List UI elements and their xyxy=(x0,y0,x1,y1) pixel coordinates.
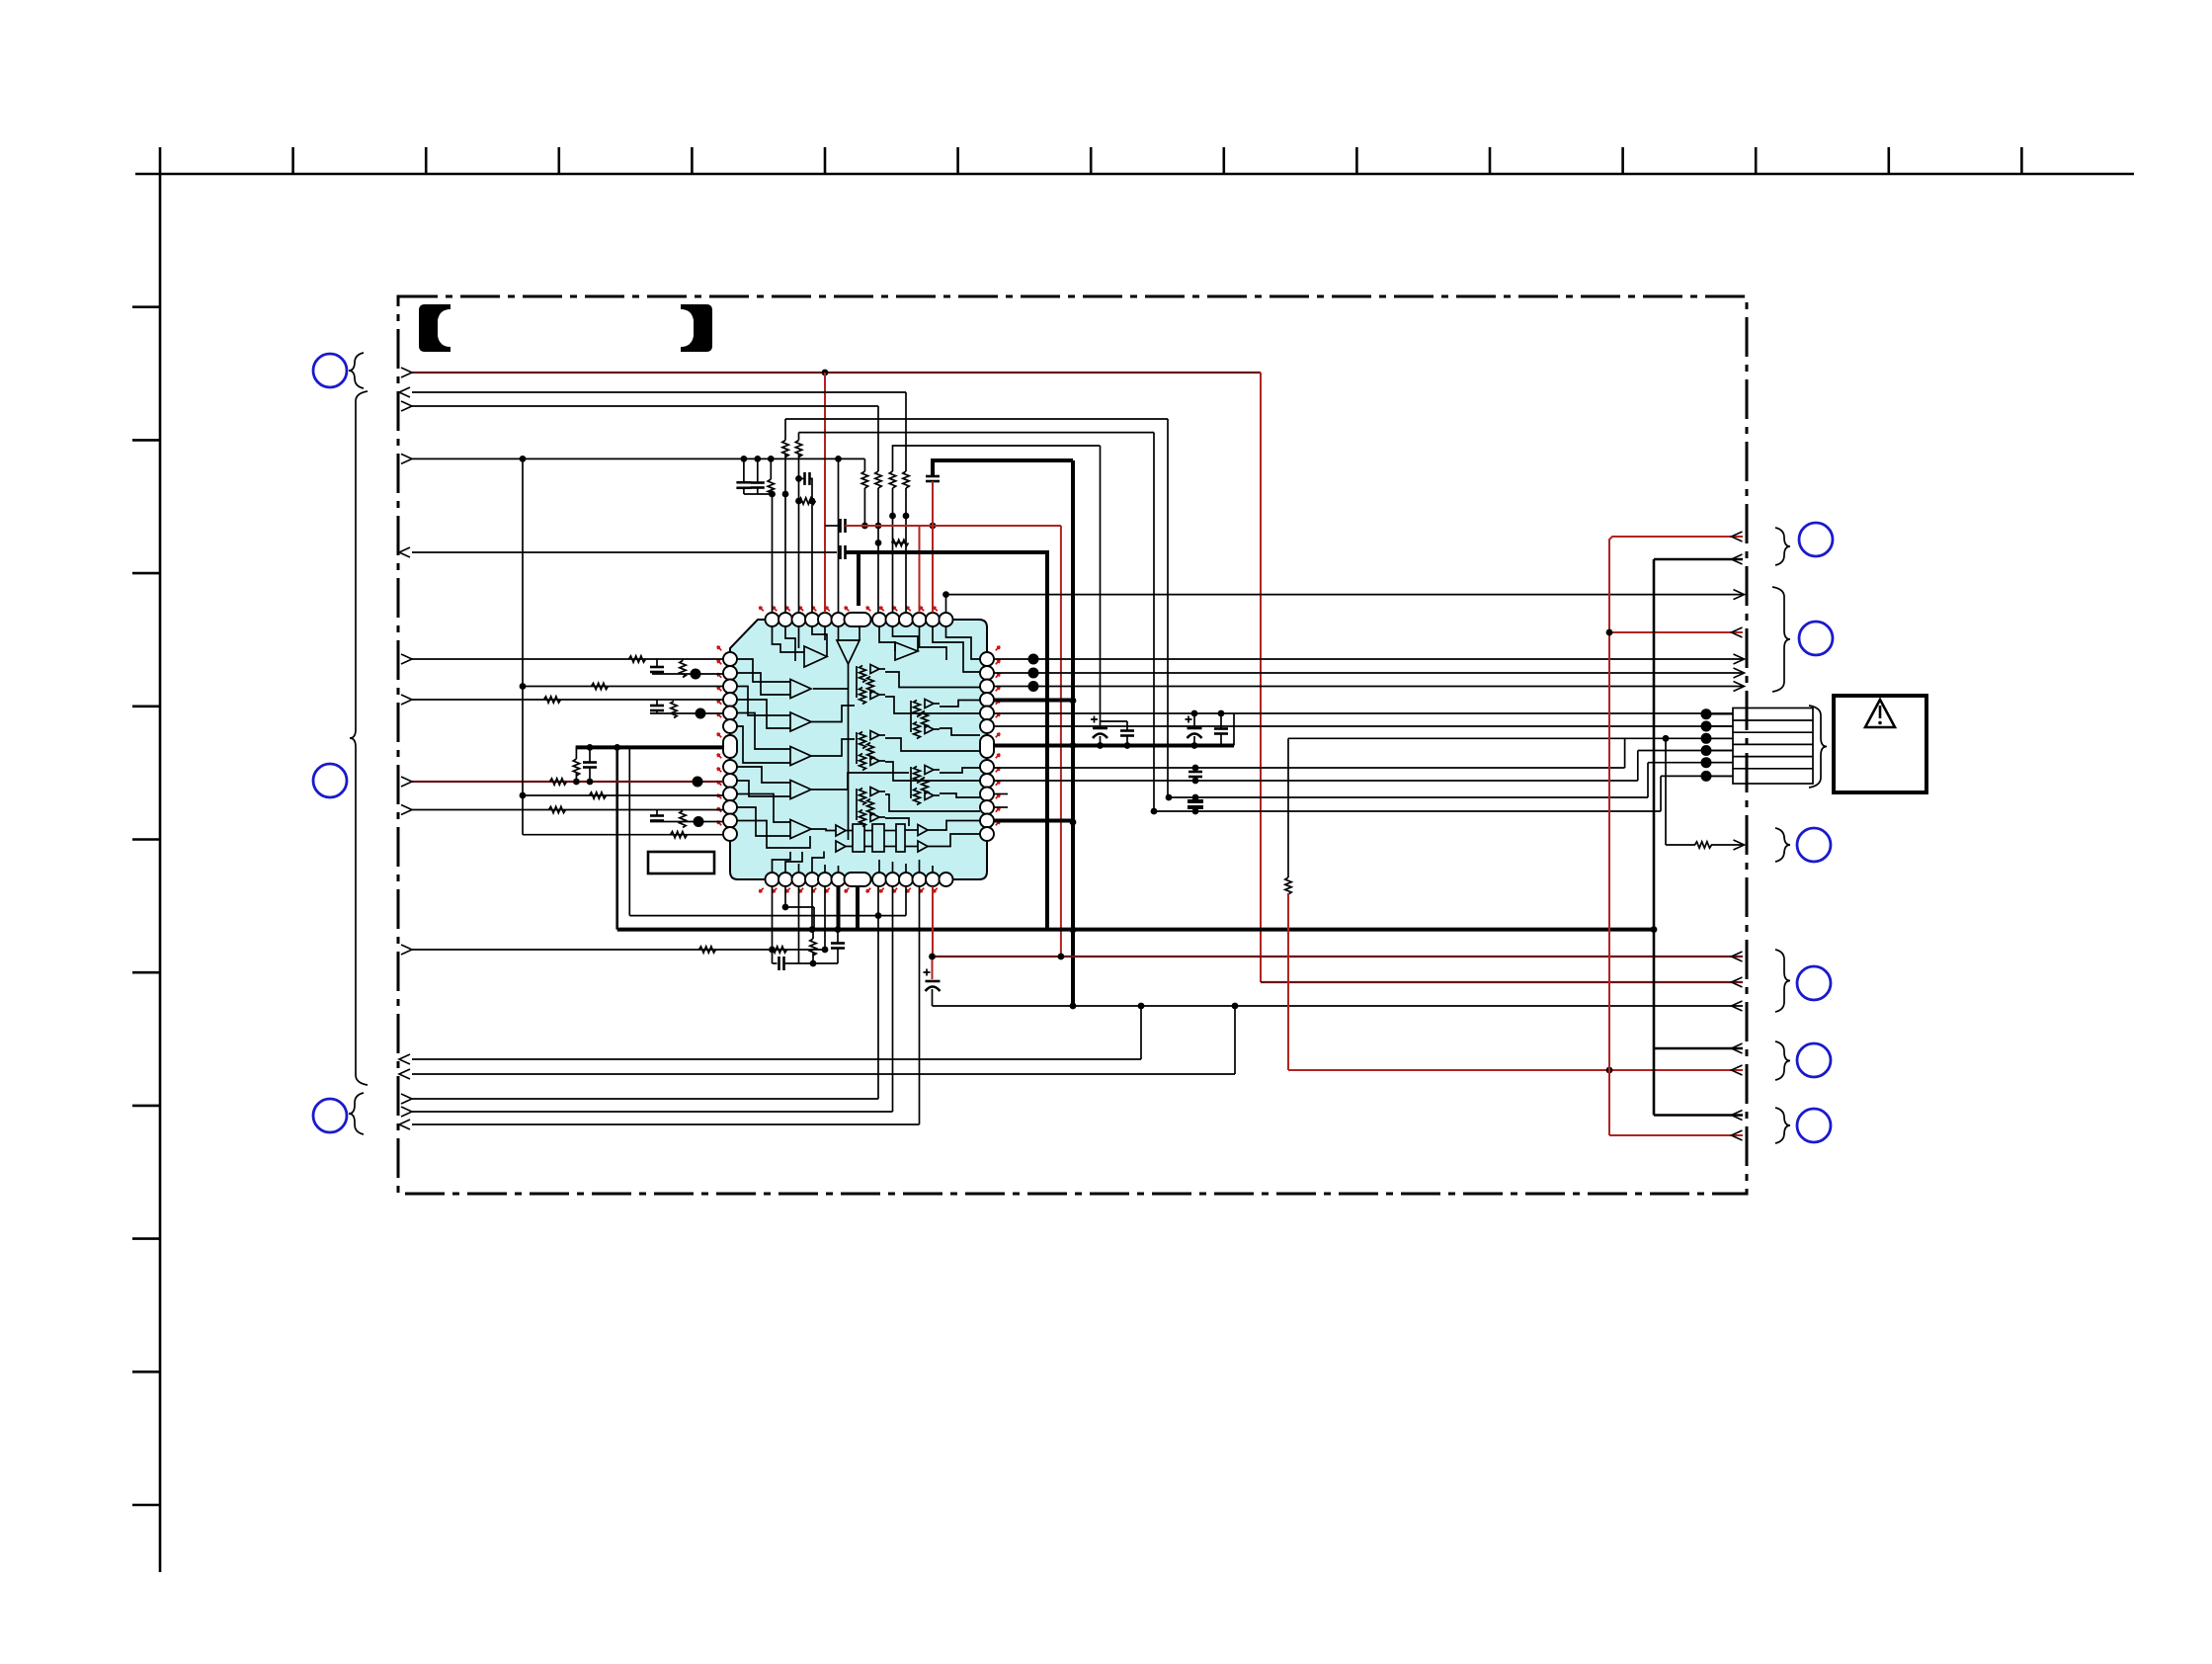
R7b leads xyxy=(770,458,772,479)
wire red to CN-R6 xyxy=(1609,1134,1743,1136)
wire R3 out xyxy=(994,686,1743,688)
wire red to pin T5 xyxy=(824,373,826,613)
resistor R7 xyxy=(799,498,816,504)
resistor R20 xyxy=(699,947,716,953)
wire red CN-R2 line xyxy=(1609,631,1743,633)
wire L12 input xyxy=(650,821,723,823)
wire B3 drop xyxy=(798,886,800,963)
wire R9 riser xyxy=(1637,751,1639,782)
wire in2 xyxy=(412,391,906,393)
capacitor C9 xyxy=(583,761,597,764)
wire in3 xyxy=(412,405,878,407)
resistor R23 xyxy=(1695,842,1712,848)
capacitor C4 xyxy=(839,519,842,533)
wire pin T9 lower xyxy=(905,488,907,613)
wire R1 out xyxy=(994,658,1743,660)
R22 leads xyxy=(812,930,814,939)
wire cap rail thick xyxy=(1073,744,1234,748)
wire B9 drop xyxy=(905,886,907,916)
wire blk branch2 xyxy=(1654,1114,1743,1117)
wire thick gnd rail xyxy=(617,928,1654,932)
capacitor C10 xyxy=(650,814,664,817)
resistor R17 xyxy=(549,806,566,812)
wire blk branch1 xyxy=(1654,1047,1743,1050)
capacitor C3 xyxy=(803,472,806,485)
wire T6 vertical xyxy=(838,458,840,613)
capacitor C17 xyxy=(1214,727,1228,730)
IC internal gain network G5 xyxy=(860,789,866,805)
IC bottom pin row xyxy=(766,873,779,886)
wire L11 input xyxy=(412,809,723,811)
wire red vert x1074 xyxy=(1060,526,1062,957)
wire net821 xyxy=(1154,810,1661,812)
capacitor C19 xyxy=(1188,800,1202,803)
wire bias line C xyxy=(785,418,1168,420)
wire J1 feed3 xyxy=(1288,737,1733,739)
wire net807 xyxy=(1169,796,1648,798)
connector CN-L1 (blue circle) xyxy=(313,354,347,387)
IC U1 body xyxy=(730,620,987,879)
wire out lines bottom-left xyxy=(412,1098,878,1100)
board outline (dash-dot border) xyxy=(398,296,1747,1194)
page frame top ruler xyxy=(135,173,2134,176)
resistor R7b xyxy=(768,479,774,496)
page frame left ruler xyxy=(159,147,162,1572)
right title bracket xyxy=(681,304,712,352)
wire B8 long drop xyxy=(877,886,879,1099)
resistor R8 xyxy=(861,471,867,488)
wire red vertical right xyxy=(1260,373,1262,982)
wire R4 link xyxy=(893,541,907,543)
C7 leads xyxy=(656,659,658,667)
wire T1 vertical xyxy=(772,494,774,613)
wire R7 thick xyxy=(994,744,1073,748)
R7 leads xyxy=(798,500,800,502)
C16 leads xyxy=(1193,713,1195,726)
IC internal center bus wire xyxy=(848,664,850,840)
IC right pin column xyxy=(980,652,994,666)
IC internal filter chain xyxy=(836,825,846,836)
wire L4 input xyxy=(412,699,723,701)
wire line D drop xyxy=(1153,433,1155,811)
wire filter feed xyxy=(412,458,864,459)
capacitor C13 electrolytic xyxy=(926,980,941,983)
capacitor C8 xyxy=(650,705,664,707)
IC internal buffer A7 xyxy=(790,781,811,799)
wire B10 long drop xyxy=(892,886,894,1112)
IC internal gain network G2 xyxy=(914,701,921,717)
wire blk vertical xyxy=(1653,559,1656,1116)
connector CN-R2 (blue circle) xyxy=(1799,622,1833,655)
brace for CN-R2 xyxy=(1772,587,1790,692)
wire R9 out xyxy=(994,780,1638,782)
C2 leads xyxy=(757,458,759,482)
wire bl3 xyxy=(412,1123,920,1125)
wire red to CN-R5b xyxy=(1288,1069,1743,1071)
wire ret1 riser xyxy=(1140,1006,1142,1059)
resistor R6 xyxy=(795,441,801,458)
wire B1 drop xyxy=(772,886,774,963)
capacitor C15 xyxy=(1120,729,1134,732)
capacitor C6 xyxy=(839,545,842,559)
IC internal inverter A2 (down) xyxy=(837,640,860,664)
connector CN-R3 (blue circle) xyxy=(1797,828,1831,862)
wire bl2 xyxy=(412,1111,893,1113)
capacitor C2 xyxy=(751,481,765,484)
resistor R15 xyxy=(550,779,567,785)
resistor R24 xyxy=(1285,877,1291,894)
wire dark-red to CN-R4 xyxy=(1261,981,1743,983)
wire red pin T11 xyxy=(919,526,921,613)
tall brace left group xyxy=(350,391,368,1085)
capacitor C16 electrolytic xyxy=(1188,727,1202,730)
brace for CN-L1 xyxy=(349,353,364,388)
C8 leads xyxy=(656,700,658,706)
C19 plates thick xyxy=(1188,799,1203,803)
wire net821 riser xyxy=(1660,776,1662,811)
resistor R19 xyxy=(671,832,688,838)
capacitor C5 xyxy=(926,475,940,478)
wire R4 thick gnd xyxy=(994,699,1073,703)
wire red mid xyxy=(846,525,1061,527)
wire gnd drop medium xyxy=(615,747,618,929)
C15 leads xyxy=(1126,721,1128,731)
IC internal buffer A4 xyxy=(790,680,811,699)
wire red pwr rail xyxy=(933,956,1744,957)
wire pin T10 lower xyxy=(892,488,894,613)
C5 red lead xyxy=(932,481,934,613)
resistor R10 xyxy=(680,661,686,678)
wire R5 leads xyxy=(784,419,786,441)
wire L5 input xyxy=(650,712,723,714)
wire B5 drop xyxy=(824,886,826,950)
R8 leads xyxy=(863,458,865,471)
resistor R9 xyxy=(629,656,646,662)
brace for CN-R3 xyxy=(1775,828,1790,862)
capacitor C18 xyxy=(1188,771,1202,774)
wire thick gnd right xyxy=(846,552,1048,930)
IC left pin column xyxy=(723,652,737,666)
resistor R11 xyxy=(592,683,609,689)
C4 left lead xyxy=(825,525,841,527)
resistor R13 xyxy=(671,702,677,718)
wire cap join xyxy=(744,493,773,495)
wire pin T10 upper xyxy=(893,446,1101,471)
resistor R12 xyxy=(544,697,561,703)
wire R6 to J1 xyxy=(994,725,1733,727)
connector CN-R5 (blue circle) xyxy=(1797,1043,1831,1077)
C11 leads xyxy=(773,962,778,964)
capacitor C12 xyxy=(831,942,845,945)
resistor R4 coupling xyxy=(892,540,909,545)
resistor R21 xyxy=(771,947,787,953)
resistor R5 xyxy=(782,441,788,458)
wire B7 thick drop xyxy=(856,886,860,930)
resistor R22 xyxy=(810,939,816,956)
wire R6 leads xyxy=(798,433,800,441)
IC internal buffer A1 xyxy=(804,646,827,667)
wire sense rail xyxy=(629,915,906,917)
wire L9 red input xyxy=(412,781,723,783)
multi-pin connector block J1 xyxy=(1733,708,1813,785)
wire SE out xyxy=(946,594,1744,596)
wire pin T8 vertical upper xyxy=(877,406,879,471)
IC top pin row xyxy=(766,613,779,626)
wire R8 riser xyxy=(1624,738,1626,768)
wire pin T9 vertical xyxy=(905,392,907,471)
C13 leads xyxy=(932,957,934,979)
resistor R2 xyxy=(903,471,909,488)
IC internal buffer A3 xyxy=(895,642,918,660)
wire agnd rail xyxy=(933,1005,1744,1007)
C18 leads xyxy=(1194,768,1196,772)
resistor R18 xyxy=(680,811,686,828)
wire ret2 riser xyxy=(1234,1006,1236,1074)
C1 leads xyxy=(743,458,745,482)
wire blk CN-R1 line xyxy=(1654,558,1743,561)
capacitor C1 xyxy=(736,481,751,484)
C14 leads xyxy=(1100,446,1102,726)
brace for CN-L3 xyxy=(349,1093,364,1134)
C10 leads xyxy=(656,810,658,816)
R10 leads xyxy=(682,659,684,661)
wire ret1 xyxy=(412,1058,1141,1060)
C12 leads xyxy=(837,930,839,944)
resistor R16 xyxy=(590,792,607,798)
IC pin red tick marks xyxy=(758,606,765,613)
connector J1 entry wires with junction dots xyxy=(1706,713,1733,715)
wire red drop xyxy=(1287,893,1289,1070)
wire R2 out xyxy=(994,672,1743,674)
IC internal hookup wires xyxy=(737,659,790,682)
wire L10 input xyxy=(523,794,723,796)
IC internal gain network G4 xyxy=(914,767,921,784)
wire L3 input xyxy=(523,686,723,688)
brace for CN-R1 xyxy=(1775,528,1790,565)
wire L2 input xyxy=(652,673,723,675)
wire sense drop right xyxy=(1665,738,1667,845)
wire pin T12 stub xyxy=(945,595,947,613)
connector CN-L2 (blue circle) xyxy=(313,764,347,797)
capacitor C14 electrolytic xyxy=(1093,727,1107,730)
wire R8 out xyxy=(994,767,1625,769)
IC internal gain network G1 xyxy=(860,666,866,683)
wire thick cap top xyxy=(933,460,1073,476)
wire B12 red drop xyxy=(932,886,934,957)
wire B11 long drop xyxy=(919,886,921,1124)
wire R5 to J1 xyxy=(994,712,1733,714)
wire pin T8 vertical lower xyxy=(877,488,879,613)
wire res branch top xyxy=(1287,738,1289,877)
C3 leads xyxy=(799,477,805,479)
wire gnd line xyxy=(412,551,837,553)
box component below IC xyxy=(648,852,714,874)
wire L13 input xyxy=(523,834,723,836)
top ruler ticks xyxy=(291,147,294,174)
wire thick stadium riser xyxy=(857,552,860,606)
wire B6 thick drop xyxy=(837,886,841,930)
IC internal buffer A5 xyxy=(790,712,811,731)
C19 leads xyxy=(1194,797,1196,800)
junction on VCC xyxy=(822,370,829,376)
wire line C drop xyxy=(1167,419,1169,797)
warning box xyxy=(1834,696,1926,792)
wire R12 thick out xyxy=(994,819,1073,823)
IC internal gain network G3 xyxy=(860,732,866,749)
wire thick bus xyxy=(1071,460,1075,1006)
brace for CN-R5 xyxy=(1775,1041,1790,1080)
wire ret2 xyxy=(412,1073,1235,1075)
wire L7 thick xyxy=(576,745,723,749)
connector CN-R6 (blue circle) xyxy=(1797,1109,1831,1142)
resistor R3 xyxy=(889,471,895,488)
brace for CN-R4 xyxy=(1775,950,1790,1012)
brace connector-to-warning xyxy=(1809,706,1827,788)
R14 leads xyxy=(575,747,577,759)
wire B2 gnd xyxy=(813,907,815,930)
IC internal buffer A8 xyxy=(790,820,811,839)
wire left bus vertical xyxy=(522,460,524,835)
capacitor C11 xyxy=(778,957,780,970)
C17 leads xyxy=(1220,713,1222,729)
connector CN-R4 (blue circle) xyxy=(1797,966,1831,1000)
wire red CN-R1 line xyxy=(1609,537,1743,1135)
IC internal buffer A6 xyxy=(790,747,811,766)
wire L1 input xyxy=(412,658,723,660)
brace for CN-R6 xyxy=(1775,1108,1790,1143)
C9 leads xyxy=(589,747,591,762)
wire sense to CN-R3 xyxy=(1666,844,1695,846)
wire sense drop xyxy=(628,747,630,915)
wire bias line D xyxy=(799,432,1155,434)
wire B4 drop xyxy=(811,886,813,930)
connector CN-R1 (blue circle) xyxy=(1799,523,1833,556)
wire B2 drop xyxy=(785,886,814,907)
left title bracket xyxy=(419,304,451,352)
wire net807 riser xyxy=(1647,763,1649,797)
wire VCC dark-red top xyxy=(412,372,1261,374)
wire R11 stub xyxy=(994,806,1008,808)
capacitor C7 xyxy=(650,666,664,669)
wire R10 stub xyxy=(994,793,1008,795)
resistor R14 xyxy=(573,759,579,776)
wire mic in xyxy=(412,949,825,951)
connector CN-L3 (blue circle) xyxy=(313,1099,347,1132)
resistor R1 xyxy=(875,471,881,488)
left ruler ticks xyxy=(132,305,160,308)
